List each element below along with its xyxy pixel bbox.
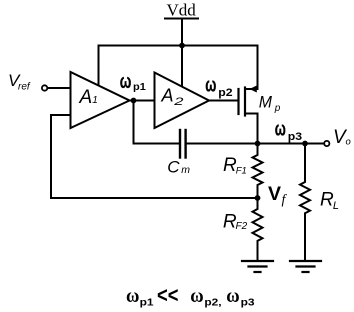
transistor Mp channel bar (244, 88, 246, 116)
svg-text:ω: ω (226, 286, 239, 307)
junction dot RL tap (302, 141, 308, 147)
resistor RL (300, 144, 310, 261)
op-amp A1 (71, 72, 130, 128)
svg-text:A: A (79, 87, 93, 108)
svg-text:p1: p1 (140, 297, 155, 308)
svg-text:ω: ω (205, 74, 216, 96)
wire Vdd vertical to rail and A2 (181, 19, 183, 88)
terminal Vref (42, 85, 47, 90)
svg-text:ω: ω (126, 286, 139, 307)
svg-text:p2: p2 (218, 87, 232, 99)
svg-text:F2: F2 (236, 221, 248, 232)
resistor RF2 (253, 198, 263, 261)
svg-text:ref: ref (18, 82, 31, 93)
label Vf (268, 183, 288, 208)
label RL (320, 190, 339, 212)
svg-text:2: 2 (173, 96, 184, 108)
wire A2 output to gate (209, 100, 239, 102)
svg-text:C: C (167, 158, 180, 177)
label RF2 (223, 211, 248, 232)
label node ωp1 (120, 71, 146, 93)
transistor Mp source lead (245, 46, 258, 90)
ground under RF2 (242, 261, 273, 272)
svg-text:V: V (268, 183, 281, 205)
svg-text:R: R (320, 190, 334, 211)
node ωp3 junction dot (255, 141, 261, 147)
svg-text:<<: << (157, 282, 179, 307)
wire ωp1 down to Cm (134, 101, 181, 144)
label pole condition formula (126, 282, 255, 308)
terminal Vo (324, 141, 329, 146)
label A1 (79, 87, 98, 108)
junction dot Vdd rail (179, 43, 185, 49)
svg-text:F1: F1 (236, 165, 247, 176)
capacitor Cm right plate (184, 130, 186, 158)
label A2 (161, 86, 184, 108)
svg-text:L: L (333, 200, 339, 212)
svg-text:A: A (161, 86, 174, 106)
label node ωp3 (275, 118, 302, 143)
svg-text:p1: p1 (133, 81, 146, 93)
wire Cm to output node (186, 143, 324, 145)
label Mp (259, 94, 281, 114)
svg-text:p3: p3 (241, 298, 256, 309)
node Vf junction dot (255, 195, 261, 201)
label node ωp2 (205, 74, 232, 99)
svg-text:ω: ω (275, 118, 286, 140)
svg-text:p2,: p2, (204, 298, 221, 309)
svg-text:M: M (259, 94, 272, 112)
transistor Mp gate bar (237, 89, 239, 114)
label Vref (8, 71, 31, 92)
svg-text:m: m (181, 164, 190, 176)
svg-text:ω: ω (190, 286, 203, 307)
svg-text:o: o (346, 136, 351, 147)
label Vo (333, 127, 351, 148)
op-amp A2 (155, 73, 210, 129)
svg-text:ω: ω (120, 71, 132, 93)
Vdd supply bar (165, 18, 198, 20)
svg-text:p: p (274, 103, 281, 114)
ground under RL (290, 261, 321, 272)
transistor Mp source arrow (249, 86, 256, 93)
resistor RF1 (253, 144, 263, 199)
transistor Mp drain lead (245, 114, 258, 144)
svg-text:p3: p3 (288, 131, 302, 143)
label Cm (167, 158, 190, 177)
wire A1 output to A2 (130, 100, 155, 102)
svg-text:Vdd: Vdd (167, 1, 197, 20)
wire Vref input (48, 87, 71, 89)
label RF1 (223, 155, 247, 176)
wire top supply rail (99, 45, 258, 47)
svg-text:1: 1 (92, 95, 98, 106)
node ωp1 junction dot (131, 98, 137, 104)
capacitor Cm left plate (179, 130, 181, 158)
wire A1 inverting input feedback (51, 115, 258, 198)
wire rail to A1 top (98, 46, 100, 87)
